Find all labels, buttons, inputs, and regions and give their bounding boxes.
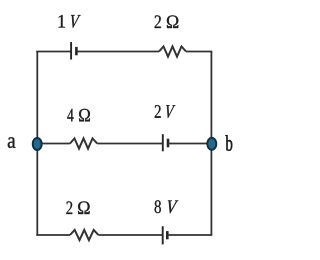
wire bottom-left segment [36, 234, 70, 236]
wire middle-right segment to node b [168, 143, 211, 145]
battery V3 8V short plate [166, 231, 169, 239]
label 8V digit [155, 200, 161, 213]
battery V2 2V short plate [167, 139, 170, 148]
label 4ohm digit [67, 109, 73, 122]
resistor R bottom 2ohm zigzag [70, 230, 98, 240]
wire top middle segment [76, 51, 159, 53]
battery V3 8V long plate [162, 226, 164, 244]
wire top-left segment [36, 51, 71, 53]
battery V1 1V long plate [70, 42, 72, 60]
label 4ohm omega [79, 109, 90, 122]
resistor R top 2ohm zigzag [159, 46, 186, 56]
label 2V unit V [165, 105, 175, 118]
node b dot [207, 138, 216, 150]
wire bottom-right segment [167, 234, 212, 236]
label node-a letter [8, 137, 16, 148]
label node-b letter [225, 135, 232, 150]
node a dot [33, 138, 42, 150]
wire middle segment to battery [97, 143, 163, 145]
battery V1 1V short plate [75, 47, 78, 55]
wire middle-left segment from node a [37, 143, 70, 145]
wire bottom middle segment [98, 234, 162, 236]
label 8V unit V [167, 200, 179, 213]
wire top-right segment [186, 51, 212, 53]
label 2V digit [155, 105, 161, 118]
label 1V digit [59, 15, 65, 28]
wire right vertical b-branch [210, 52, 212, 236]
label 2ohm-bot digit [66, 201, 72, 214]
label 2ohm-bot omega [78, 201, 90, 214]
label 1V unit V [70, 15, 81, 28]
label 2ohm-top omega [167, 15, 178, 28]
wire left vertical a-branch [36, 52, 38, 236]
resistor R mid 4ohm zigzag [70, 138, 97, 148]
battery V2 2V long plate [162, 134, 164, 151]
label 2ohm-top digit [155, 15, 161, 28]
